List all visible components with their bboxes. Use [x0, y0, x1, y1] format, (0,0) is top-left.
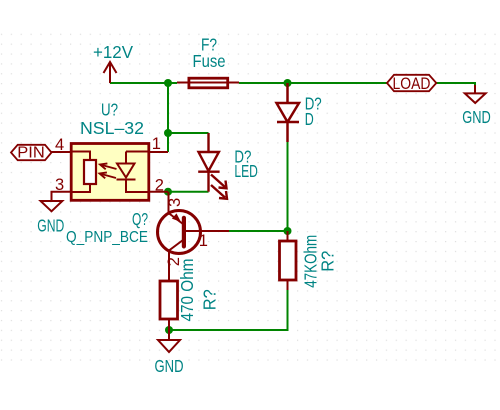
- svg-text:PIN: PIN: [17, 145, 45, 162]
- svg-text:NSL–32: NSL–32: [80, 118, 144, 138]
- svg-text:1: 1: [199, 232, 208, 250]
- svg-text:LOAD: LOAD: [393, 75, 431, 93]
- svg-text:R?: R?: [200, 289, 220, 310]
- svg-text:2: 2: [155, 177, 164, 195]
- svg-text:GND: GND: [37, 216, 64, 236]
- svg-text:+12V: +12V: [93, 42, 133, 62]
- svg-text:2: 2: [165, 257, 183, 266]
- svg-text:3: 3: [166, 198, 184, 207]
- svg-text:R?: R?: [318, 250, 338, 271]
- svg-text:U?: U?: [101, 100, 118, 120]
- svg-text:GND: GND: [462, 107, 491, 127]
- svg-text:D: D: [305, 109, 314, 129]
- svg-text:470 Ohm: 470 Ohm: [177, 259, 197, 322]
- svg-text:4: 4: [55, 136, 64, 154]
- svg-text:3: 3: [55, 176, 64, 194]
- svg-text:GND: GND: [155, 356, 184, 376]
- svg-text:Fuse: Fuse: [193, 51, 226, 71]
- svg-text:1: 1: [152, 135, 161, 153]
- svg-text:Q?: Q?: [132, 209, 148, 229]
- svg-text:LED: LED: [234, 161, 258, 181]
- svg-text:Q_PNP_BCE: Q_PNP_BCE: [66, 229, 148, 246]
